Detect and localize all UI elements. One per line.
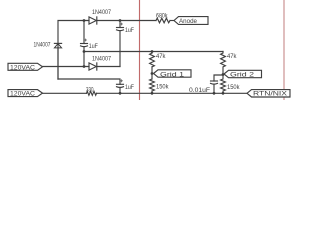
diode D_left 1N4007 (vertical, pointing up): [54, 43, 61, 48]
flag Grid 1: [154, 70, 192, 77]
wire top rail right segment: [98, 20, 157, 22]
wire mid rail y=51.5: [84, 51, 223, 53]
svg-text:150k: 150k: [227, 85, 240, 91]
svg-text:47k: 47k: [227, 54, 237, 60]
resistor 150k left: [150, 74, 155, 94]
resistor 330 zigzag: [87, 91, 97, 95]
svg-text:120VAC: 120VAC: [10, 92, 36, 98]
svg-text:Grid 1: Grid 1: [160, 72, 185, 78]
svg-text:1uF: 1uF: [125, 28, 134, 34]
sheet border line right (red): [283, 0, 285, 100]
junction dots: [83, 19, 225, 95]
sheet border line left (red): [139, 0, 141, 100]
capacitor C3 1uF (x=120 bottom): [117, 80, 124, 94]
wire 120VAC#1 row: [43, 66, 90, 68]
svg-text:1uF: 1uF: [125, 85, 134, 91]
svg-text:1N4007: 1N4007: [92, 56, 112, 62]
svg-text:Anode: Anode: [179, 19, 198, 25]
svg-text:330: 330: [86, 87, 94, 93]
flag Anode: [174, 17, 208, 25]
svg-text:Grid 2: Grid 2: [230, 72, 255, 78]
svg-text:120VAC: 120VAC: [10, 65, 36, 71]
svg-text:RTN/NIX: RTN/NIX: [253, 91, 287, 97]
resistor 47k right: [221, 52, 226, 75]
wire bottom row y=93.3: [43, 92, 87, 94]
diode D_top 1N4007: [89, 17, 97, 24]
capacitor C4 0.01uF: [211, 75, 224, 93]
flag RTN/NIX: [247, 90, 290, 97]
svg-text:1N4007: 1N4007: [92, 10, 112, 16]
flag 120VAC #1: [8, 63, 43, 70]
flag 120VAC #2: [8, 90, 43, 97]
capacitor C1 1uF (x=84): [81, 21, 88, 67]
wire left vertical below diode: [57, 48, 59, 79]
wire top rail left segment: [58, 21, 89, 80]
svg-text:47k: 47k: [156, 54, 166, 60]
svg-text:1N4007: 1N4007: [34, 43, 52, 49]
wire 680k to Anode flag: [170, 20, 174, 22]
capacitor C2 1uF (x=120 top): [117, 21, 124, 67]
svg-text:150k: 150k: [156, 84, 169, 90]
wire horizontal y=79: [58, 79, 120, 84]
diode D2 1N4007: [89, 63, 97, 70]
flag Grid 2: [224, 70, 262, 77]
svg-text:0.01uF: 0.01uF: [189, 88, 210, 94]
svg-text:1uF: 1uF: [89, 44, 98, 50]
resistor 47k left: [150, 52, 155, 74]
resistor 150k right: [221, 74, 226, 93]
svg-text:680k: 680k: [156, 14, 168, 20]
resistor 680k zigzag: [156, 18, 170, 23]
